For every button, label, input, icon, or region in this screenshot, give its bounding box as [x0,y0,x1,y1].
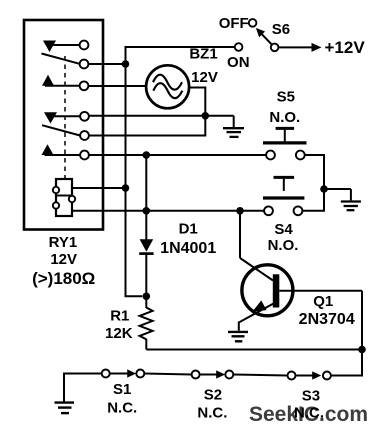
svg-text:D1: D1 [179,220,198,237]
junction H6/V2 [143,151,151,159]
svg-text:N.C.: N.C. [107,400,137,417]
wire NC contact to pin 1 [52,44,80,46]
wire R1 bottom to collector vertical (H13) [146,349,362,351]
junction D1 bottom / V1 corner [143,293,151,301]
wire coil bottom terminal to S4 left (H9) [72,210,264,212]
wire collector down to bottom row (V6) [331,291,362,376]
wire NC contact to pin 4 [53,115,80,117]
relay RY1 contact set 1: NC fixed contact triangle [43,41,56,53]
relay armature 1 [42,54,80,64]
junction H13/V6 [358,346,366,354]
switch S3 [288,372,296,380]
switch S6 ON terminal [235,43,243,51]
svg-text:R1: R1 [110,307,129,324]
svg-text:1N4001: 1N4001 [160,240,216,257]
svg-text:N.O.: N.O. [268,237,299,254]
switch S6 OFF terminal [249,19,257,27]
bottom-left ground and wire to S1 [64,374,102,402]
relay coil [56,179,72,216]
wire coil top terminal to V1 [72,187,126,189]
svg-text:BZ1: BZ1 [189,45,217,62]
switch S2 [192,371,200,379]
pushbutton S5 [276,127,295,130]
relay set 2 NO fixed contact triangle [42,144,54,155]
switch S1 [102,370,110,378]
svg-text:RY1: RY1 [49,234,78,251]
wire relay pin4 to ground corner (H4) [89,115,234,117]
ground near buzzer [233,116,235,127]
relay pin 2 [80,60,89,69]
junction coil-top / V1 [122,184,130,192]
svg-text:N.O.: N.O. [269,109,300,126]
buzzer wave symbol top [153,75,182,90]
junction H9/V2 (D1 top) [143,207,151,215]
svg-text:2N3704: 2N3704 [299,311,355,328]
transistor Q1 [242,265,293,316]
relay set 1 NO fixed contact triangle [42,75,54,86]
wire relay pin3 to buzzer [88,85,146,87]
relay pin 6 [80,151,89,160]
Q1 collector wire [279,290,362,292]
wire S2 to S3 [233,375,287,376]
wire S4 junction down to Q1 base [239,211,241,258]
diode D1 [145,155,147,240]
wire V1 main vertical with corner to ON and corner to D1 bottom [126,47,235,296]
pushbutton S4 [274,176,295,179]
ground right of S4/S5 [350,189,352,200]
wire buzzer right to V3 down corner [89,88,205,136]
svg-text:ON: ON [227,54,250,71]
wire S1 to S2 [144,374,191,375]
junction H9/V5 (Q1 base line) [236,207,244,215]
switch S6 pole [271,44,279,52]
svg-text:N.C.: N.C. [294,405,324,422]
Q1 emitter wire with arrow [239,304,274,323]
svg-text:S5: S5 [277,88,295,105]
junction V4/ground [320,185,328,193]
ground Q1 emitter [228,331,248,333]
svg-text:12K: 12K [105,325,133,342]
relay pin 5 [80,131,89,140]
wire relay pin2 to V1 [88,63,125,65]
buzzer wave symbol bottom [153,83,182,98]
svg-text:S6: S6 [272,21,290,38]
relay mechanical linkage dashed line [64,56,66,179]
buzzer BZ1 circle [146,65,189,108]
switch S6 arm with arrowhead [261,33,272,45]
svg-text:S4: S4 [274,221,293,238]
wire junction to ground G2 [324,188,351,190]
svg-text:+12V: +12V [325,38,366,57]
relay armature 2 [42,125,80,135]
svg-text:S1: S1 [113,381,131,398]
relay pin 1 [80,41,89,50]
resistor R1 zigzag [140,308,153,340]
relay box RY1 outline [24,20,103,230]
svg-text:S2: S2 [204,386,222,403]
svg-text:OFF: OFF [219,15,249,32]
relay RY1 contact set 2: NC fixed contact triangle [44,112,57,123]
junction pin2/V1 [122,60,130,68]
relay pin 3 [80,81,89,90]
wire S5 right to V4 [302,155,324,211]
svg-text:Q1: Q1 [313,293,333,310]
wire relay pin6 to S5 left terminal (H6) [89,154,266,156]
svg-text:12V: 12V [50,251,77,268]
svg-text:(>)180Ω: (>)180Ω [32,269,95,288]
svg-text:N.C.: N.C. [197,405,227,422]
relay pin 4 [80,112,89,121]
wire NO contact to pin 6 [45,154,81,156]
junction V3/H4 [202,112,210,120]
svg-text:12V: 12V [191,69,218,86]
wire NO contact to pin 3 [45,85,80,87]
wire S6 pole to +12V arrow [279,46,315,48]
